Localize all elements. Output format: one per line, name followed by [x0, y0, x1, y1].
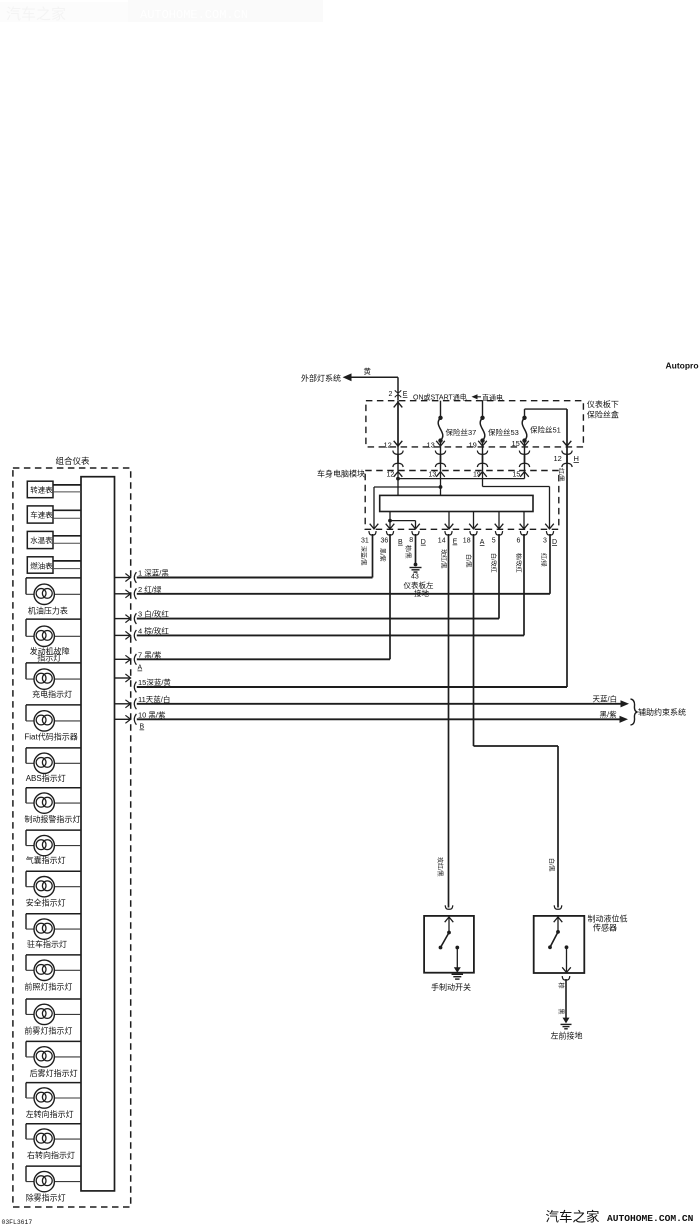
svg-text:左前接地: 左前接地 [551, 1031, 583, 1041]
output 18 (to brake fluid sensor) [470, 531, 477, 535]
svg-text:仪表板下: 仪表板下 [587, 399, 619, 409]
output 3 [546, 531, 553, 535]
fuse F37 [440, 401, 442, 418]
arrow pin 10 [620, 716, 629, 723]
svg-text:棕: 棕 [557, 983, 565, 989]
svg-text:前照灯指示灯: 前照灯指示灯 [24, 981, 72, 991]
svg-text:Fiat代码指示器: Fiat代码指示器 [24, 732, 77, 742]
svg-text:天蓝/白: 天蓝/白 [593, 694, 618, 704]
svg-text:4 棕/玫红: 4 棕/玫红 [138, 625, 169, 635]
svg-text:3 白/玫红: 3 白/玫红 [138, 609, 169, 619]
svg-text:辅助约束系统: 辅助约束系统 [638, 707, 686, 717]
brake fluid level sensor box [554, 905, 562, 909]
indicator lamp 前照灯指示灯 [26, 954, 81, 956]
svg-text:组合仪表: 组合仪表 [56, 456, 91, 466]
fuse F51 with feed to H [524, 409, 526, 418]
svg-text:36: 36 [381, 538, 389, 545]
cluster main rect [81, 477, 115, 1191]
cluster pin 1 [115, 577, 130, 579]
indicator lamp 左转向指示灯 [26, 1082, 81, 1084]
svg-text:03FL3617: 03FL3617 [2, 1219, 33, 1226]
svg-text:水温表: 水温表 [30, 535, 53, 545]
decor [128, 0, 323, 22]
svg-text:10 黑/紫: 10 黑/紫 [138, 710, 166, 719]
svg-text:2 红/绿: 2 红/绿 [138, 584, 162, 594]
svg-text:A: A [480, 539, 485, 546]
svg-text:7 黑/紫: 7 黑/紫 [138, 650, 162, 659]
output 6 [520, 531, 527, 535]
wire and connector at x=398 [397, 447, 399, 471]
svg-text:手制动开关: 手制动开关 [431, 982, 471, 992]
svg-text:玫红/黑: 玫红/黑 [436, 857, 444, 877]
svg-text:燃油表: 燃油表 [30, 560, 53, 570]
svg-text:机油压力表: 机油压力表 [28, 606, 68, 616]
svg-text:白/黑: 白/黑 [465, 554, 473, 568]
gauge 燃油表 [27, 557, 53, 573]
indicator lamp 发动机故障 [26, 618, 81, 620]
svg-text:14: 14 [438, 538, 446, 545]
indicator lamp 除雾指示灯 [26, 1165, 81, 1167]
indicator lamp 前雾灯指示灯 [26, 998, 81, 1000]
svg-text:13: 13 [427, 440, 435, 449]
gauge 转速表 [27, 481, 53, 498]
body computer box (dashed) [365, 471, 559, 530]
indicator lamp 安全指示灯 [26, 870, 81, 872]
indicator lamp 充电指示灯 [26, 662, 81, 664]
bottom edge arrows [370, 524, 379, 529]
svg-text:保险丝盒: 保险丝盒 [587, 410, 619, 420]
body computer inner rect [380, 495, 533, 511]
svg-text:12: 12 [384, 440, 392, 449]
svg-text:白/黑: 白/黑 [548, 858, 556, 872]
svg-text:汽车之家: 汽车之家 [546, 1209, 600, 1225]
svg-text:充电指示灯: 充电指示灯 [32, 689, 72, 699]
svg-text:外部灯系统: 外部灯系统 [301, 373, 341, 383]
indicator lamp 右转向指示灯 [26, 1123, 81, 1125]
indicator lamp 气囊指示灯 [26, 829, 81, 831]
output 14 (to parking brake switch) [445, 531, 452, 535]
svg-text:E: E [453, 539, 458, 546]
svg-text:除雾指示灯: 除雾指示灯 [26, 1193, 66, 1203]
svg-text:A: A [138, 665, 143, 672]
svg-text:棕/黑: 棕/黑 [404, 545, 412, 559]
cluster pin 11 [115, 703, 130, 705]
output 5 [495, 531, 502, 535]
svg-text:11天蓝/白: 11天蓝/白 [138, 694, 170, 704]
svg-text:E: E [403, 391, 408, 398]
gauge 水温表 [27, 531, 53, 548]
svg-text:黑: 黑 [557, 1009, 564, 1015]
svg-text:12: 12 [387, 472, 395, 479]
svg-text:驻车指示灯: 驻车指示灯 [27, 939, 67, 949]
gauge 车速表 [27, 506, 53, 523]
svg-text:12: 12 [554, 454, 562, 463]
svg-text:深蓝/黑: 深蓝/黑 [360, 546, 368, 566]
wire H (direct feed) [566, 409, 568, 447]
svg-text:ON或START通电: ON或START通电 [413, 392, 467, 401]
svg-text:D: D [552, 539, 557, 546]
cluster pin 15 [115, 677, 130, 679]
cluster pin 4 [115, 634, 130, 636]
svg-text:保险丝37: 保险丝37 [446, 427, 477, 437]
svg-text:直通电: 直通电 [482, 393, 503, 402]
svg-text:制动液位低: 制动液位低 [588, 914, 628, 924]
svg-text:3: 3 [543, 538, 547, 545]
indicator lamp ABS指示灯 [26, 747, 81, 749]
indicator lamp 驻车指示灯 [26, 913, 81, 915]
svg-text:黑/紫: 黑/紫 [600, 710, 618, 719]
wire and connector at x=440.5 [440, 447, 442, 471]
svg-text:指示灯: 指示灯 [37, 653, 61, 663]
cluster pin 7 [115, 658, 130, 660]
indicator lamp Fiat代码指示器 [26, 704, 81, 706]
indicator lamp 机油压力表 [26, 577, 81, 579]
indicator lamp 后雾灯指示灯 [26, 1040, 81, 1042]
svg-text:13: 13 [429, 472, 437, 479]
svg-text:B: B [140, 724, 145, 731]
svg-text:保险丝51: 保险丝51 [530, 425, 561, 435]
svg-text:6: 6 [517, 538, 521, 545]
svg-text:安全指示灯: 安全指示灯 [26, 898, 66, 908]
svg-text:传感器: 传感器 [593, 923, 617, 933]
svg-text:黑/紫: 黑/紫 [379, 548, 387, 562]
cluster pin 3 [115, 618, 130, 620]
svg-text:15: 15 [513, 472, 521, 479]
pin13 internal wire [440, 471, 442, 496]
parking brake switch box [445, 905, 453, 909]
arrow pin 11 [621, 700, 630, 707]
svg-text:1 深蓝/黑: 1 深蓝/黑 [138, 568, 169, 578]
svg-text:19: 19 [469, 440, 477, 449]
svg-text:棕/玫红: 棕/玫红 [515, 553, 523, 573]
svg-text:转速表: 转速表 [30, 485, 53, 495]
svg-text:白/玫红: 白/玫红 [490, 553, 498, 573]
svg-text:ABS指示灯: ABS指示灯 [26, 773, 66, 783]
cluster pin 2 [115, 593, 130, 595]
svg-text:D: D [421, 539, 426, 546]
svg-text:黄: 黄 [364, 366, 372, 376]
wire to exterior lights [343, 373, 352, 381]
cluster pin 10 [115, 718, 130, 720]
svg-text:制动报警指示灯: 制动报警指示灯 [24, 814, 80, 824]
sensor ground wire [562, 976, 570, 980]
fuse F53 [482, 401, 484, 418]
svg-text:B: B [398, 539, 403, 546]
svg-text:8: 8 [409, 537, 413, 544]
fuse box (dashed) [366, 401, 584, 447]
pin19 internal wire [482, 471, 484, 487]
svg-text:玫红/黑: 玫红/黑 [440, 549, 448, 569]
svg-text:AUTOHOME.COM.CN: AUTOHOME.COM.CN [607, 1213, 694, 1224]
svg-text:气囊指示灯: 气囊指示灯 [26, 855, 66, 865]
pin12 internal wire [397, 471, 399, 496]
svg-text:左转向指示灯: 左转向指示灯 [26, 1109, 74, 1119]
svg-text:2: 2 [389, 391, 393, 398]
svg-text:车速表: 车速表 [30, 509, 53, 519]
svg-text:31: 31 [361, 538, 369, 545]
svg-text:43: 43 [411, 574, 419, 581]
svg-text:19: 19 [473, 472, 481, 479]
svg-text:右转向指示灯: 右转向指示灯 [27, 1150, 75, 1160]
stubs below inner rect [389, 512, 391, 530]
svg-text:红/绿: 红/绿 [540, 553, 548, 567]
svg-text:保险丝53: 保险丝53 [488, 427, 519, 437]
svg-text:15: 15 [512, 439, 520, 448]
wire and connector at x=482.5 [482, 447, 484, 471]
output 8 to ground [412, 531, 419, 535]
svg-text:5: 5 [492, 538, 496, 545]
cluster dashed box [13, 468, 131, 1207]
output 31 [369, 531, 376, 535]
svg-text:H: H [574, 454, 579, 463]
svg-text:前雾灯指示灯: 前雾灯指示灯 [24, 1025, 72, 1035]
svg-text:Autopro: Autopro [666, 361, 699, 371]
wire 12 in fuse box [397, 401, 399, 447]
svg-text:AUTOHOME.COM.CN: AUTOHOME.COM.CN [140, 8, 248, 22]
svg-text:汽车之家: 汽车之家 [6, 6, 66, 23]
svg-text:车身电脑模块: 车身电脑模块 [317, 469, 365, 479]
svg-text:18: 18 [463, 538, 471, 545]
svg-text:15深蓝/黄: 15深蓝/黄 [138, 677, 171, 687]
svg-text:后雾灯指示灯: 后雾灯指示灯 [30, 1068, 78, 1078]
output 36 [386, 531, 393, 535]
wire and connector at x=524.5 [524, 447, 526, 471]
indicator lamp 制动报警指示灯 [26, 787, 81, 789]
